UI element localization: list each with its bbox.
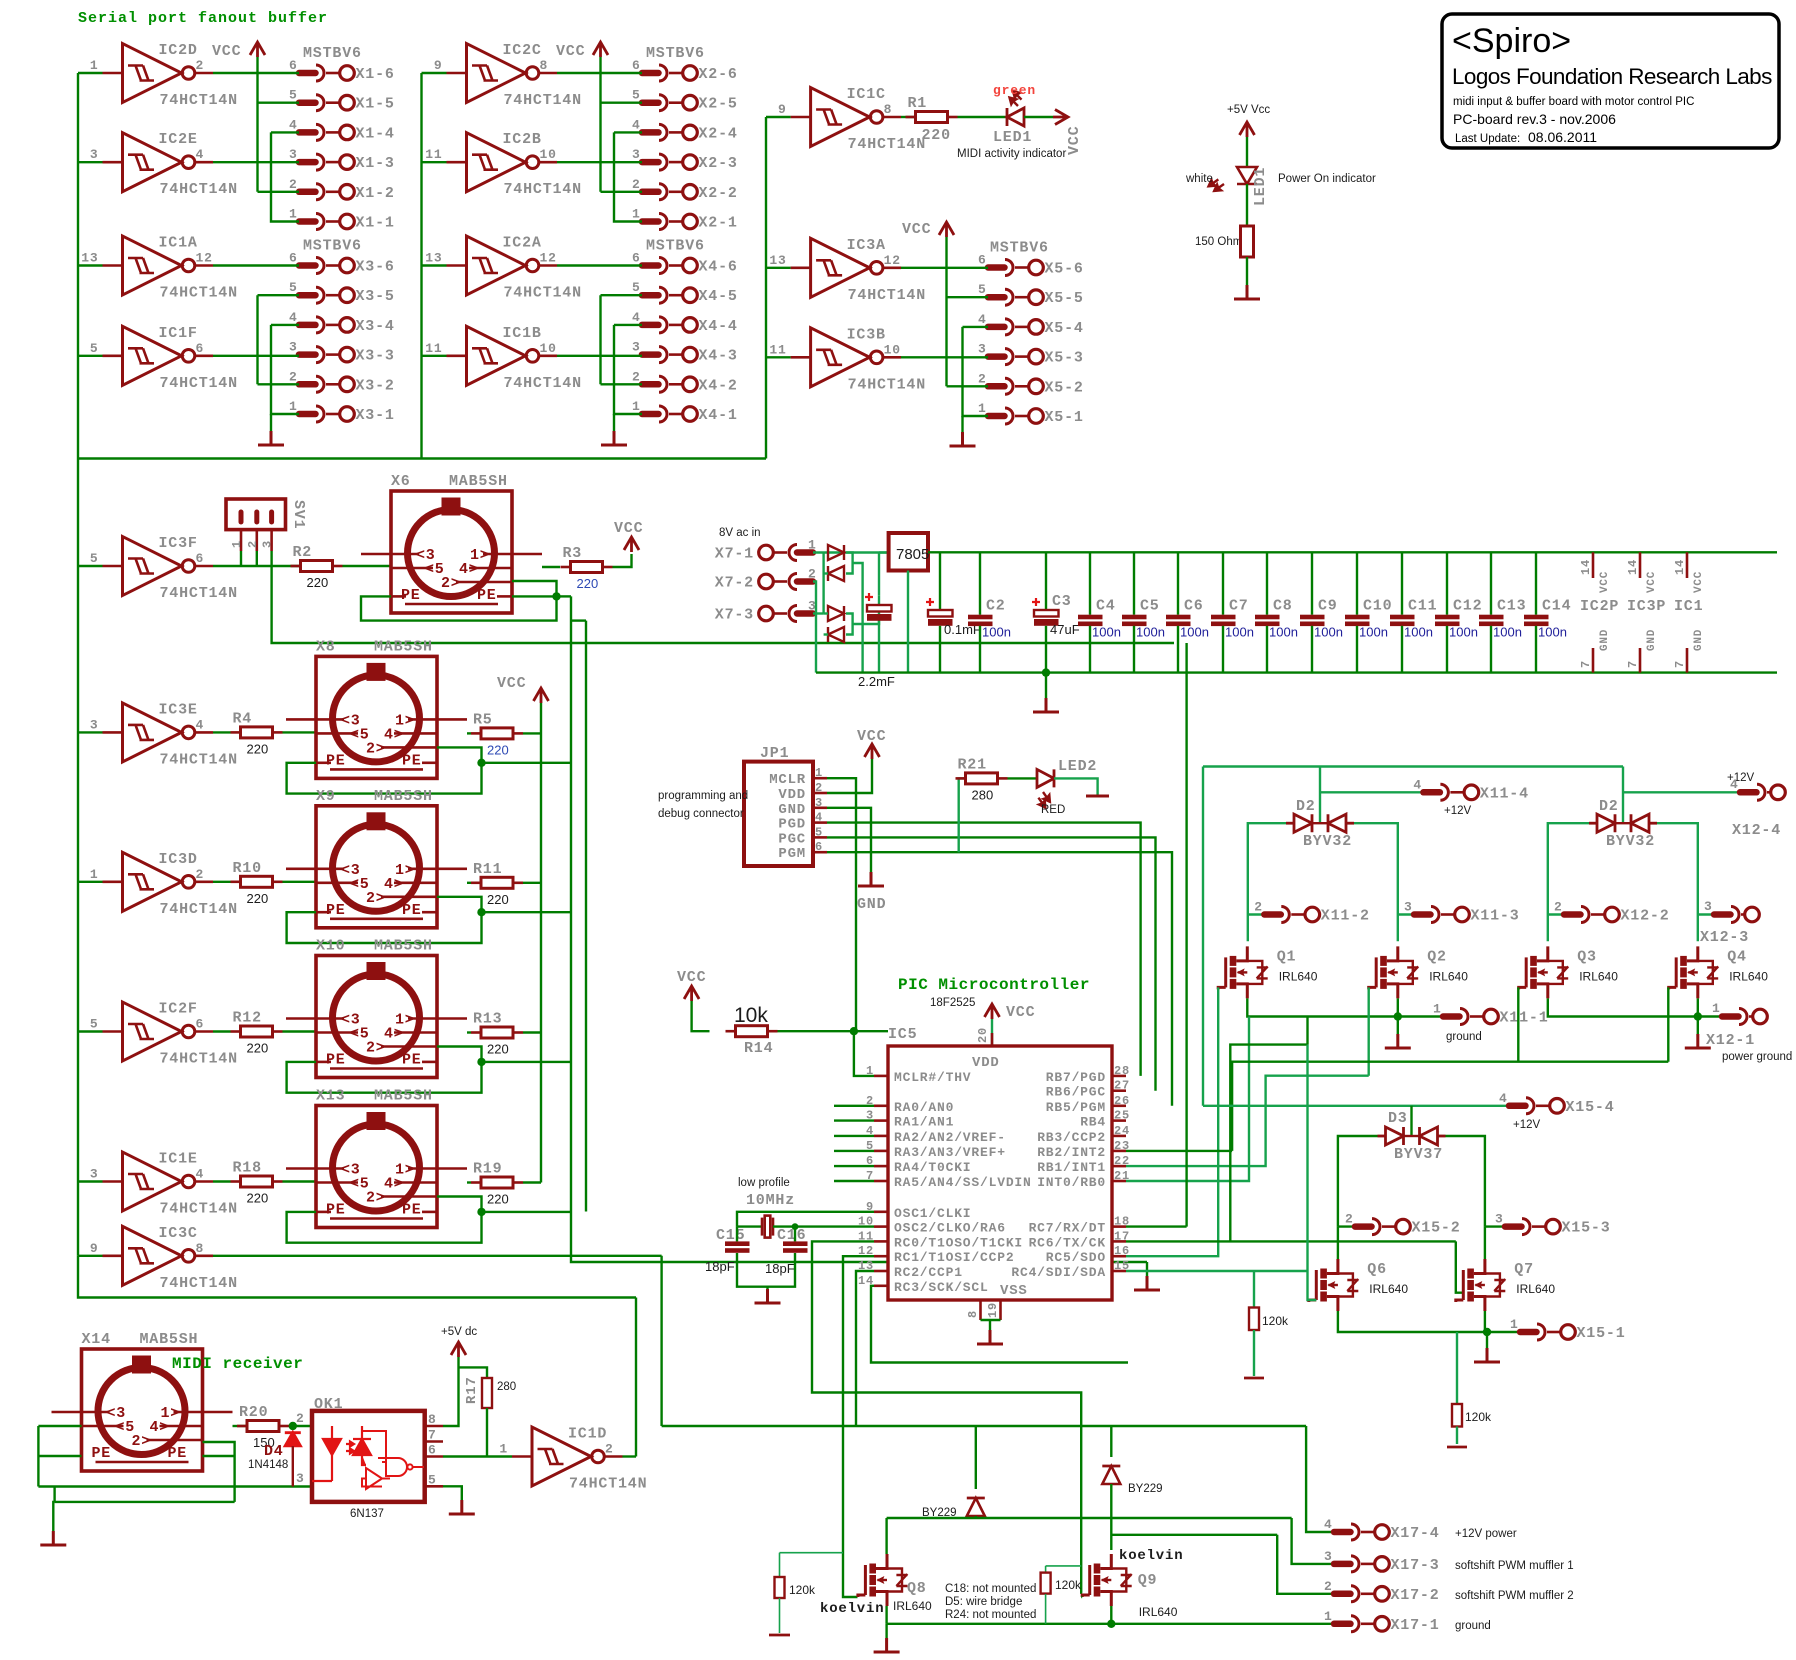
svg-text:IC1A: IC1A (159, 235, 198, 252)
svg-text:X4-2: X4-2 (699, 377, 738, 394)
svg-text:IC1F: IC1F (159, 325, 198, 342)
wire to X2-4 (614, 131, 642, 133)
svg-text:X4-4: X4-4 (699, 318, 738, 335)
svg-text:74HCT14N: 74HCT14N (160, 751, 238, 768)
pin IC5-2 (874, 1105, 888, 1108)
svg-text:MCLR: MCLR (769, 772, 806, 788)
voltage regulator 7805 (889, 533, 928, 571)
svg-text:74HCT14N: 74HCT14N (848, 376, 926, 393)
MOSFET Q9 (1082, 1554, 1132, 1606)
wire IC3A out to X5-6 (901, 267, 988, 269)
wire to IC2F input (78, 1030, 103, 1032)
pin JP1-3 (813, 806, 827, 809)
wire junction to PIC pin1 (854, 1031, 874, 1076)
junction X13 PE (477, 1208, 485, 1216)
svg-text:ground: ground (1455, 1620, 1491, 1632)
svg-text:18pF: 18pF (765, 1261, 795, 1276)
wire loop left link (53, 1487, 55, 1502)
connector JP1 programming header (744, 762, 813, 866)
wire to X4-5 (601, 294, 643, 296)
svg-text:5: 5 (90, 341, 99, 356)
wire X10 PE loop (287, 1062, 482, 1093)
wire bridge to C1 top (853, 596, 879, 624)
wire R12 to X10 pin5 (283, 1030, 317, 1032)
svg-text:PE: PE (326, 752, 346, 769)
svg-text:IC1: IC1 (1674, 598, 1703, 615)
pin IC5-26 (1112, 1105, 1126, 1108)
svg-text:C6: C6 (1184, 598, 1204, 615)
svg-text:220: 220 (922, 127, 951, 144)
connector pad X12-1 (1722, 1009, 1767, 1025)
wire to IC2C pin 9 (422, 72, 447, 74)
wire rail to 0.1mF cap (939, 552, 941, 610)
svg-text:C9: C9 (1318, 598, 1338, 615)
svg-text:X13: X13 (316, 1088, 345, 1105)
ground LED2 (1086, 795, 1109, 798)
svg-text:1: 1 (1510, 1317, 1519, 1332)
svg-text:Last Update:: Last Update: (1455, 133, 1520, 145)
svg-text:IC3D: IC3D (159, 851, 198, 868)
svg-text:MIDI activity indicator: MIDI activity indicator (957, 148, 1066, 160)
svg-text:4: 4 (1324, 1517, 1333, 1532)
svg-text:R18: R18 (233, 1160, 262, 1177)
svg-text:C11: C11 (1408, 598, 1437, 615)
OK1 internal LED (312, 1426, 354, 1481)
svg-text:VCC: VCC (556, 43, 585, 60)
svg-text:13: 13 (81, 251, 98, 266)
svg-text:6: 6 (196, 551, 205, 566)
wire net MIDI buffer input column A (77, 73, 79, 1256)
wire Q4 source down (1697, 998, 1699, 1016)
wire 120k to Q9 gate net (1046, 1565, 1082, 1567)
svg-text:<Spiro>: <Spiro> (1452, 22, 1571, 60)
svg-text:220: 220 (247, 1041, 269, 1056)
svg-text:LED1: LED1 (1252, 167, 1269, 206)
svg-text:R17: R17 (464, 1376, 480, 1404)
wire 120k Q9 top (1045, 1566, 1047, 1573)
wire IC2C out to X2-6 (557, 72, 642, 74)
inverter IC2F (103, 1002, 214, 1061)
svg-text:X1-6: X1-6 (356, 66, 395, 83)
svg-text:220: 220 (247, 741, 269, 756)
svg-text:X7-3: X7-3 (715, 607, 754, 624)
ground Q3 Q4 (1685, 1034, 1711, 1048)
svg-text:7: 7 (1626, 660, 1640, 668)
wire VCC to JP1 pin2 (827, 759, 872, 793)
svg-text:BY229: BY229 (1128, 1483, 1163, 1495)
wire Q1 gate to RC5 (1126, 987, 1218, 1256)
wire X10 pin4 to R13 (467, 1031, 471, 1033)
svg-text:X5-1: X5-1 (1045, 409, 1084, 426)
wire IC2A out to X4-6 (557, 264, 642, 266)
svg-text:280: 280 (497, 1381, 516, 1393)
wire +5V to R17 (459, 1367, 488, 1378)
svg-text:BYV32: BYV32 (1606, 833, 1655, 850)
DIN connector X9 (286, 806, 467, 928)
connector SV1 (226, 499, 286, 530)
wire 120k Q8 down (779, 1598, 781, 1633)
wire X7-2 to bottom rail (813, 582, 816, 673)
wire to X4-2 (601, 383, 643, 385)
junction ground rail at C3 (1042, 668, 1050, 676)
wire R21 to LED2 (1008, 777, 1038, 779)
wire to X5-2 (947, 385, 989, 387)
power LED light arrows (1207, 175, 1226, 194)
svg-text:100n: 100n (1404, 625, 1433, 640)
svg-text:PGD: PGD (778, 817, 806, 833)
svg-text:Q7: Q7 (1514, 1261, 1534, 1278)
svg-text:C8: C8 (1273, 598, 1293, 615)
svg-text:100n: 100n (1269, 625, 1298, 640)
wire IC3C out right (213, 1255, 662, 1257)
connector pad X5-3 (988, 349, 1043, 365)
svg-text:X17-1: X17-1 (1391, 1617, 1440, 1634)
svg-text:MSTBV6: MSTBV6 (646, 238, 705, 255)
wire to ground X1/X3 (270, 414, 272, 431)
svg-text:VCC: VCC (614, 520, 643, 537)
wire R17 to pin6 net (486, 1408, 488, 1457)
svg-text:74HCT14N: 74HCT14N (504, 181, 582, 198)
svg-text:19: 19 (986, 1302, 1000, 1318)
svg-text:8: 8 (540, 58, 549, 73)
connector pad X17-1 (1334, 1616, 1389, 1632)
power pins IC3P (1639, 552, 1642, 578)
svg-text:ground: ground (1446, 1031, 1482, 1043)
wire D4 to pin3 net (292, 1446, 294, 1487)
wire gnd bus X4 to X4-1 (614, 325, 642, 414)
resistor R18 (241, 1176, 273, 1187)
wire gnd bus X3 to X3-1 (271, 325, 299, 414)
diode bridge D1b (828, 566, 844, 581)
wire VCC bus DIN column (540, 703, 542, 1183)
connector pad X5-4 (988, 319, 1043, 335)
svg-text:9: 9 (778, 102, 787, 117)
svg-text:C5: C5 (1140, 598, 1160, 615)
VCC symbol JP1 (865, 744, 880, 759)
svg-text:VCC: VCC (1006, 1004, 1035, 1021)
wire R1 to LED1 (958, 116, 1008, 118)
ground Q8 (874, 1638, 900, 1652)
svg-text:IRL640: IRL640 (1516, 1282, 1555, 1296)
svg-text:3: 3 (296, 1471, 305, 1486)
wire VCC bus X5 (945, 237, 947, 386)
svg-text:X2-4: X2-4 (699, 125, 738, 142)
wire X14 PE bottom loop (38, 1485, 312, 1487)
connector pad X1-3 (299, 154, 354, 170)
svg-text:RB2/INT2: RB2/INT2 (1037, 1145, 1106, 1160)
svg-text:X3-5: X3-5 (356, 288, 395, 305)
wire to X2-2 (601, 191, 643, 193)
svg-text:1: 1 (1324, 1609, 1333, 1624)
svg-text:100n: 100n (982, 625, 1011, 640)
svg-text:9: 9 (90, 1241, 99, 1256)
svg-text:RA3/AN3/VREF+: RA3/AN3/VREF+ (894, 1145, 1006, 1160)
svg-text:6: 6 (978, 253, 987, 268)
svg-text:74HCT14N: 74HCT14N (160, 1051, 238, 1068)
svg-text:X6: X6 (391, 473, 411, 490)
svg-text:C10: C10 (1363, 598, 1392, 615)
svg-text:PGM: PGM (778, 846, 806, 862)
wire to X11-1 (1398, 1015, 1443, 1017)
svg-text:10MHz: 10MHz (746, 1192, 795, 1209)
svg-text:X15-1: X15-1 (1577, 1325, 1626, 1342)
junction MCLR (850, 1027, 858, 1035)
pin OK1-8 (425, 1425, 443, 1428)
svg-text:X7-1: X7-1 (715, 546, 754, 563)
svg-text:C3: C3 (1052, 593, 1072, 610)
wire 120k Q9 down (1045, 1594, 1047, 1624)
wire to Q34 ground (1697, 1017, 1699, 1035)
wire IC1A out to X3-6 (213, 264, 299, 266)
svg-text:14: 14 (1673, 559, 1687, 575)
svg-text:PE: PE (477, 587, 497, 604)
svg-text:+12V: +12V (1513, 1119, 1541, 1131)
svg-text:4: 4 (978, 312, 987, 327)
wire to IC1C pin 9 (766, 116, 791, 118)
wire OSC1 to crystal (737, 1212, 874, 1227)
wire C6 to ground rail (1177, 626, 1179, 673)
wire +12V bottom bus (662, 1425, 1307, 1427)
svg-text:IRL640: IRL640 (893, 1599, 932, 1613)
svg-text:C12: C12 (1453, 598, 1482, 615)
svg-text:MSTBV6: MSTBV6 (990, 240, 1049, 257)
connector pad X2-5 (642, 95, 697, 111)
svg-text:74HCT14N: 74HCT14N (160, 285, 238, 302)
svg-text:RA1/AN1: RA1/AN1 (894, 1115, 954, 1130)
svg-text:3: 3 (90, 717, 99, 732)
svg-text:120k: 120k (789, 1583, 816, 1597)
svg-text:PGC: PGC (778, 831, 806, 847)
wire to X14 ground (53, 1502, 54, 1531)
wire +12V to X11-4 (1320, 791, 1423, 793)
wire 2.2mF to rail (878, 621, 880, 673)
pin PIC VDD 20 (991, 1033, 994, 1046)
pin IC5-15 (1112, 1270, 1126, 1273)
junction X9 PE (477, 908, 485, 916)
svg-text:programming and: programming and (658, 790, 748, 802)
pin IC5-3 (874, 1119, 888, 1122)
ground X14 (40, 1531, 66, 1545)
pin X8 PE stubs (316, 761, 331, 764)
ground X2/X4 column (601, 431, 627, 445)
wire to X4-4 (614, 324, 642, 326)
connector pad X15-2 (1355, 1219, 1410, 1235)
svg-text:Q8: Q8 (907, 1580, 927, 1597)
svg-text:+12V power: +12V power (1455, 1528, 1517, 1540)
wire RC2 down (856, 1271, 874, 1426)
VCC symbol PIC VDD (985, 1004, 1000, 1019)
wire RB0 net up (1126, 1017, 1249, 1182)
svg-text:OSC1/CLKI: OSC1/CLKI (894, 1206, 971, 1221)
svg-text:+5V Vcc: +5V Vcc (1227, 104, 1270, 116)
svg-text:power ground: power ground (1722, 1051, 1792, 1063)
wire rail to C7 (1222, 552, 1224, 614)
svg-text:2>: 2> (366, 740, 386, 757)
svg-text:VCC: VCC (497, 675, 526, 692)
wire +12V bus left drop (1202, 767, 1204, 1106)
pin IC5-4 (874, 1135, 888, 1138)
inverter IC3F (103, 537, 214, 596)
connector pad X11-1 (1443, 1009, 1498, 1025)
ground 120k Q8 (769, 1634, 790, 1637)
pin IC5-21 (1112, 1180, 1126, 1183)
ground power LED (1234, 285, 1260, 299)
svg-text:MSTBV6: MSTBV6 (303, 238, 362, 255)
pin IC5-1 (874, 1075, 888, 1078)
inverter IC2C (447, 44, 558, 103)
svg-text:4>: 4> (384, 726, 404, 743)
svg-text:X5-4: X5-4 (1045, 320, 1084, 337)
svg-text:3: 3 (90, 1167, 99, 1182)
svg-text:2: 2 (196, 58, 205, 73)
inverter IC3B (791, 328, 902, 387)
diode BY229 (B) (1102, 1466, 1120, 1484)
wire gnd bus X1 to X1-1 (271, 132, 299, 221)
ground crystal caps (755, 1289, 781, 1303)
svg-text:4>: 4> (384, 876, 404, 893)
diode bridge D1c (828, 606, 844, 621)
svg-text:R10: R10 (233, 860, 262, 877)
svg-text:koelvin: koelvin (1119, 1548, 1183, 1564)
wire Q8 to ground (885, 1624, 887, 1638)
pin IC5-18 (1112, 1225, 1126, 1228)
dual diode D2 BYV32 (B) (1589, 814, 1657, 832)
connector pad X12-3 (1714, 907, 1759, 923)
resistor R13 (481, 1027, 513, 1038)
svg-text:74HCT14N: 74HCT14N (504, 285, 582, 302)
resistor R12 (241, 1026, 273, 1037)
svg-text:1: 1 (808, 538, 817, 553)
VCC symbol X5 (939, 222, 954, 237)
svg-text:3: 3 (90, 147, 99, 162)
wire IC1B out to X4-3 (557, 355, 642, 357)
capacitor C10 (1345, 615, 1370, 620)
ground 120k PIC area (1244, 1377, 1264, 1380)
svg-text:2.2mF: 2.2mF (858, 674, 895, 689)
ground OK1 (449, 1500, 475, 1514)
svg-text:RA2/AN2/VREF-: RA2/AN2/VREF- (894, 1130, 1006, 1145)
DIN connector X8 (286, 656, 467, 778)
wire rail to C11 (1401, 552, 1403, 614)
svg-text:SV1: SV1 (290, 500, 307, 529)
wire LED1 to VCC (1024, 116, 1053, 118)
svg-text:X17-4: X17-4 (1391, 1525, 1440, 1542)
wire to IC3E input (78, 731, 103, 733)
wire X9 pin2 down (437, 897, 482, 912)
wire rail to C14 (1535, 552, 1537, 614)
pin OK1-7 (425, 1440, 443, 1443)
svg-text:6: 6 (289, 58, 298, 73)
inverter IC2E (103, 133, 214, 192)
svg-text:5: 5 (90, 1017, 99, 1032)
svg-text:100n: 100n (1136, 625, 1165, 640)
wire X6 pin4 to R3 (542, 566, 560, 568)
inverter IC2A (447, 236, 558, 295)
svg-text:1: 1 (230, 540, 244, 548)
svg-text:5: 5 (978, 282, 987, 297)
wire to X15-3 (1485, 1225, 1505, 1227)
crystal 10MHz (762, 1216, 773, 1238)
resistor R14 10k (736, 1026, 768, 1037)
wire X6 PE loop (361, 596, 557, 620)
connector pad X11-3 (1414, 907, 1469, 923)
wire to X5-5 (947, 296, 989, 298)
wire to D2b center (1622, 767, 1624, 824)
svg-text:4: 4 (289, 310, 298, 325)
wire Q3 source to gnd bus (1548, 998, 1698, 1016)
svg-text:5: 5 (90, 551, 99, 566)
connector pad X11-2 (1264, 907, 1319, 923)
wire IC1D out (623, 1455, 637, 1457)
resistor R20 (247, 1421, 279, 1432)
svg-text:IRL640: IRL640 (1369, 1282, 1408, 1296)
wire +12V to X17-4 (1306, 1426, 1334, 1532)
wire input bus horizontal (78, 457, 766, 459)
wire rail to C2 (979, 552, 981, 614)
junction X8 PE (477, 759, 485, 767)
svg-text:green: green (993, 83, 1036, 98)
svg-text:2: 2 (196, 867, 205, 882)
wire to Q6 gate (1308, 1271, 1317, 1300)
svg-text:14: 14 (1626, 559, 1640, 575)
wire net column C input (765, 117, 767, 459)
svg-text:4: 4 (632, 117, 641, 132)
svg-text:RC1/T1OSI/CCP2: RC1/T1OSI/CCP2 (894, 1250, 1014, 1265)
svg-text:100n: 100n (1359, 625, 1388, 640)
pin OK1-6 (425, 1455, 443, 1458)
svg-text:1: 1 (632, 399, 641, 414)
wire R14 to MCLR junction (778, 1030, 889, 1032)
resistor 120k (X15 area) (1452, 1404, 1462, 1427)
wire X14 PE right (203, 1455, 235, 1457)
connector pad X4-4 (642, 317, 697, 333)
inverter IC1C (791, 88, 902, 147)
pin X13 PE stubs (316, 1211, 331, 1214)
wire rail to C13 (1490, 552, 1492, 614)
wire OK1 pin5 to ground (443, 1486, 462, 1502)
wire X14 PE left (38, 1455, 81, 1457)
svg-text:2: 2 (296, 1411, 305, 1426)
svg-text:4>: 4> (150, 1419, 170, 1436)
wire JP1 pin3 to GND (827, 808, 871, 872)
svg-text:8: 8 (196, 1241, 205, 1256)
svg-text:3: 3 (1704, 899, 1713, 914)
wire C3 to ground rail (1045, 626, 1047, 673)
svg-text:IC3E: IC3E (159, 701, 198, 718)
svg-text:MCLR#/THV: MCLR#/THV (894, 1070, 971, 1085)
svg-text:MAB5SH: MAB5SH (374, 638, 433, 655)
svg-text:MSTBV6: MSTBV6 (646, 45, 705, 62)
wire to Q ground (1397, 1017, 1399, 1035)
svg-text:4: 4 (289, 117, 298, 132)
dual diode D3 BYV37 (1378, 1127, 1446, 1145)
connector pad X1-4 (299, 124, 354, 140)
wire +12V to BY229b cathode (1110, 1426, 1112, 1457)
wire 120k down (1253, 1330, 1255, 1376)
svg-text:Logos Foundation Research Labs: Logos Foundation Research Labs (1452, 64, 1772, 89)
svg-text:VCC: VCC (1693, 571, 1705, 593)
wire to X12-1 (1698, 1015, 1722, 1017)
wire C10 to ground rail (1356, 626, 1358, 673)
svg-text:IC3B: IC3B (847, 326, 886, 343)
wire X8 junction to PE chain (482, 762, 572, 764)
wire to X12-3 (1698, 913, 1714, 915)
svg-text:X15-4: X15-4 (1566, 1099, 1615, 1116)
wire LED to 150 Ohm (1246, 184, 1248, 226)
ground Q1 Q2 (1385, 1034, 1411, 1048)
svg-text:100n: 100n (1180, 625, 1209, 640)
svg-text:3: 3 (632, 340, 641, 355)
